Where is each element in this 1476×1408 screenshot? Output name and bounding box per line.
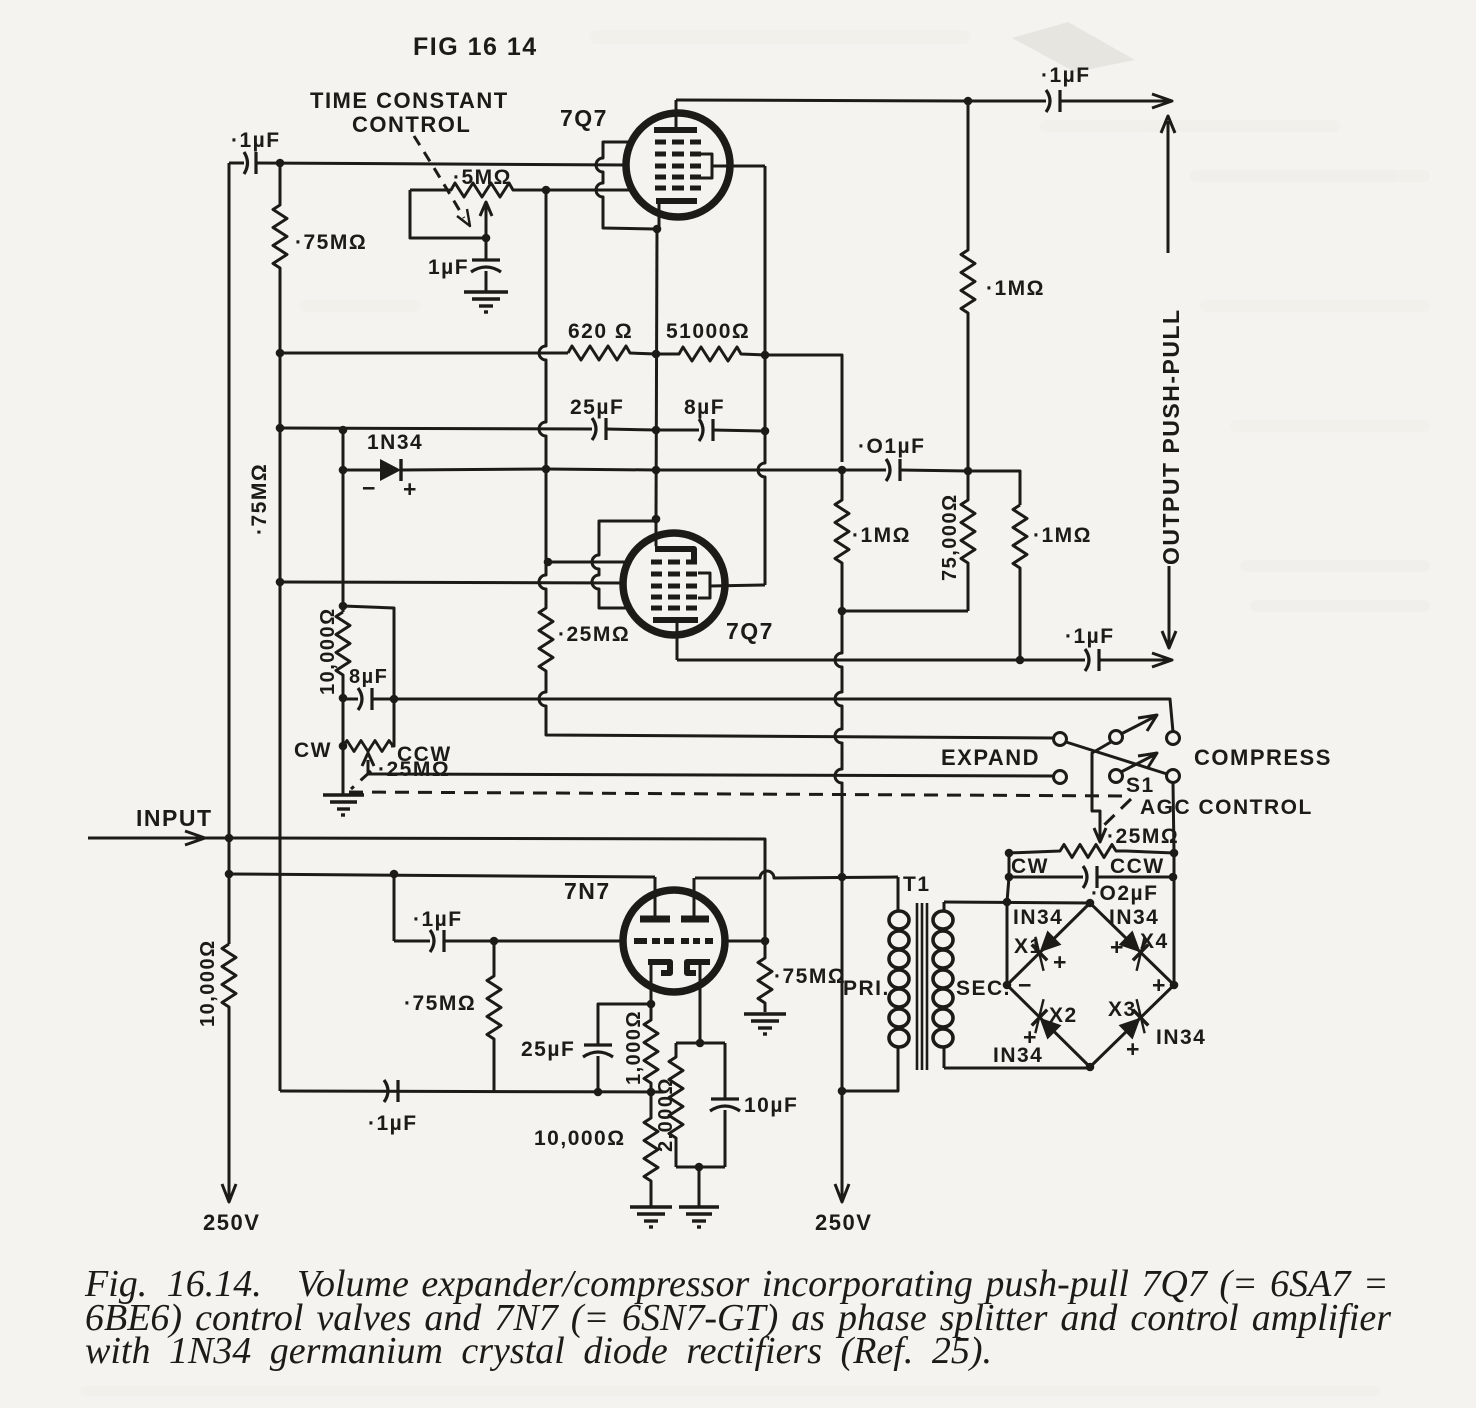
V3 cathode1 lead <box>650 964 653 1004</box>
V2 anode bar with hook <box>655 549 694 560</box>
resistor .1M (x968 top) <box>961 101 975 471</box>
resistor 10,000 ohm vertical (bottom) <box>644 1092 658 1206</box>
resistor 10,000 ohm (input rail to 250V) <box>222 944 236 1027</box>
node junction dot (842,470) <box>838 466 847 475</box>
transformer T1 primary winding <box>889 911 909 1047</box>
V1 grid dashes <box>655 142 701 188</box>
V1 cathode bar <box>656 198 697 204</box>
pot1 wiper arrow up <box>362 753 374 774</box>
svg-text:10,000Ω: 10,000Ω <box>197 939 219 1027</box>
svg-text:CONTROL: CONTROL <box>352 112 471 137</box>
node junction dot (842,611) <box>838 607 847 616</box>
node junction dot (765,941) <box>761 937 770 946</box>
vertical x765 bracket V1 to bracket V2 with hop at 470 <box>758 166 765 585</box>
switch S1 contact bottom-mid <box>1110 770 1123 783</box>
capacitor 25uF (cathode bypass) <box>583 1045 613 1092</box>
resistor 75M (7N7 grid2 leak) <box>758 941 772 1012</box>
transformer T1 secondary winding <box>933 911 953 1047</box>
node junction dot (229,838) <box>225 834 234 843</box>
V3 anode bars <box>640 916 709 923</box>
svg-text:IN34: IN34 <box>1109 906 1159 929</box>
rail x842 transformer tee down to 250V arrow <box>835 877 849 1202</box>
svg-text:−: − <box>362 475 377 501</box>
diode X4 1N34 <box>1114 928 1157 971</box>
node junction dot (1173,877) <box>1169 873 1178 882</box>
svg-text:1,000Ω: 1,000Ω <box>623 1010 645 1085</box>
switch S1 contact top-right <box>1167 732 1180 745</box>
svg-text:with 1N34 germanium crystal di: with 1N34 germanium crystal diode rectif… <box>85 1330 992 1372</box>
node bridge bottom dot <box>1086 1063 1095 1072</box>
wire y774 wiper to switch <box>368 774 1053 776</box>
capacitor 8uF (row y429) <box>656 419 765 441</box>
svg-text:250V: 250V <box>203 1210 260 1235</box>
wire row y699: 8uF node to switch corner <box>394 699 1173 732</box>
node junction dot (229,874) <box>225 870 234 879</box>
V1 left loop (top grid tie) with hops <box>596 142 655 229</box>
switch S1 contact top-mid <box>1110 731 1123 744</box>
wire cathode1 to 25uF top <box>598 1004 651 1044</box>
resistor .75M (7N7 grid1 leak) <box>487 941 501 1091</box>
node junction dot (280,582) <box>276 578 285 587</box>
svg-text:7Q7: 7Q7 <box>560 105 608 131</box>
svg-text:X1: X1 <box>1014 935 1043 958</box>
wire secondary bottom to bridge bottom <box>944 1067 1090 1070</box>
wire pot return box <box>410 190 486 238</box>
wire bridge minus leg <box>1006 902 1009 985</box>
node junction dot (699,1167) <box>695 1163 704 1172</box>
wire row y353 left segment <box>280 352 568 355</box>
svg-text:TIME CONSTANT: TIME CONSTANT <box>310 88 509 113</box>
wire pot2 left down <box>1008 853 1011 877</box>
svg-text:10,000Ω: 10,000Ω <box>534 1127 626 1150</box>
node junction dot (394,699) <box>390 695 399 704</box>
ground under 1uF <box>464 292 508 312</box>
resistor 10,000 ohm vertical (avc filter) <box>336 612 350 698</box>
svg-text:AGC CONTROL: AGC CONTROL <box>1140 796 1313 819</box>
wire B y874 to 7N7 anode1 <box>229 874 655 877</box>
capacitor .1uF (output top) <box>968 90 1168 112</box>
wire rail x280 below resistor <box>279 353 282 1091</box>
node junction dot (1009,877) <box>1005 873 1014 882</box>
V2 cathode lead to output row <box>676 622 679 660</box>
node junction dot (968,101) <box>964 97 973 106</box>
capacitor .1uF (output 2) <box>1020 649 1168 671</box>
wire anode top to output row y100 <box>676 100 968 101</box>
node junction dot (486,238) <box>482 234 491 243</box>
wire row y429 left segment <box>280 428 592 429</box>
node junction dot (1020,660) <box>1016 656 1025 665</box>
svg-text:IN34: IN34 <box>993 1044 1043 1067</box>
svg-text:+: + <box>403 476 418 502</box>
ground (10,000) <box>630 1207 672 1227</box>
wire output row y660 <box>677 659 1022 662</box>
node bridge left dot <box>1003 981 1012 990</box>
svg-text:·75MΩ: ·75MΩ <box>774 965 846 988</box>
svg-text:8µF: 8µF <box>349 666 388 688</box>
node junction dot (343,470) <box>339 466 348 475</box>
node junction dot (546,190) <box>542 186 551 195</box>
node bridge right dot <box>1170 981 1179 990</box>
tube V1 7Q7 envelope <box>626 113 730 217</box>
switch S1 contact bottom-right <box>1167 770 1180 783</box>
node junction dot (765,355) <box>761 351 770 360</box>
node junction dot (343,698) <box>339 694 348 703</box>
svg-text:51000Ω: 51000Ω <box>666 320 750 343</box>
bridge diamond edges <box>1007 903 1174 1067</box>
resistor .75M (top left) vertical <box>273 163 287 353</box>
switch wiper arrow top <box>1121 715 1157 734</box>
capacitor C-in .1uF (top left) <box>229 152 256 174</box>
vertical x546 from 5M down with hops <box>539 190 546 469</box>
wire A y838 input to 7N7 grid2 corner <box>229 838 765 941</box>
rail x842 down with hops <box>835 470 849 611</box>
capacitor .1uF (feedback, bottom) <box>384 1080 398 1102</box>
wire y582 rail to tube V2 lower grid <box>280 582 624 583</box>
V2 cathode bar <box>653 617 698 623</box>
wire bias row y1091 <box>280 1091 663 1092</box>
wire to ground (2,000) <box>698 1167 701 1206</box>
wire secondary top to bridge top <box>944 902 1090 903</box>
node junction dot (656,470) <box>652 466 661 475</box>
svg-text:·1µF: ·1µF <box>413 908 463 931</box>
diode 1N34 (AVC) <box>380 459 401 481</box>
svg-text:·1MΩ: ·1MΩ <box>1033 524 1092 547</box>
V3 cathode bars <box>648 962 710 973</box>
svg-text:7Q7: 7Q7 <box>726 618 774 644</box>
svg-text:EXPAND: EXPAND <box>941 745 1040 770</box>
wire x394 down to coupling cap <box>393 874 396 941</box>
svg-text:X4: X4 <box>1140 930 1169 953</box>
faint page bleed-through smudges <box>1012 22 1135 72</box>
node junction dot (765,431) <box>761 427 770 436</box>
capacitor .1uF (7N7 grid1 coupling) <box>394 930 623 952</box>
node junction dot (280,428) <box>276 424 285 433</box>
transformer T1 core <box>917 903 927 1070</box>
switch wiper arrow bottom <box>1121 753 1157 772</box>
svg-text:1N34: 1N34 <box>367 431 423 454</box>
transformer T1 secondary stubs <box>943 902 946 910</box>
node junction dot (343,606) <box>339 602 348 611</box>
node junction dot (701,1043) <box>696 1039 705 1048</box>
V3 grid dashed row <box>634 938 713 944</box>
svg-text:25µF: 25µF <box>570 396 624 419</box>
2,000/10uF box bottom <box>676 1166 725 1169</box>
node junction dot (842,877) <box>838 873 847 882</box>
capacitor 1uF (time constant) <box>471 238 501 291</box>
node junction dot (656,354) <box>652 350 661 359</box>
node junction dot (548,562) <box>544 558 553 567</box>
V1 right grid bracket <box>701 154 712 178</box>
resistor 620 ohm horizontal <box>568 346 656 360</box>
V3 cathode2 lead <box>699 964 702 1043</box>
svg-text:IN34: IN34 <box>1013 906 1063 929</box>
svg-text:10µF: 10µF <box>744 1094 798 1117</box>
wire avc rail x343 top <box>342 428 345 470</box>
node junction dot (656,430) <box>652 426 661 435</box>
node junction dot (546,469) <box>542 465 551 474</box>
svg-text:+: + <box>1053 949 1068 975</box>
svg-text:620 Ω: 620 Ω <box>568 320 633 343</box>
V2 left loop (top tie) with hops <box>592 521 656 608</box>
V1 cathode lead <box>658 203 661 229</box>
dashed AGC gang line <box>349 771 1131 831</box>
wire V2 bracket to x765 <box>710 585 765 586</box>
wire avc x343 crossing y582 <box>342 470 345 612</box>
node bridge top dot <box>1086 899 1095 908</box>
node junction dot (842,1091) <box>838 1087 847 1096</box>
svg-text:PRI.: PRI. <box>843 977 890 1000</box>
V2 grid dashes <box>651 562 697 608</box>
svg-text:−: − <box>1018 972 1033 998</box>
svg-text:X3: X3 <box>1108 998 1137 1021</box>
svg-text:S1: S1 <box>1126 774 1155 797</box>
svg-text:INPUT: INPUT <box>136 805 213 831</box>
node junction dot (1174,853) <box>1170 849 1179 858</box>
svg-text:OUTPUT PUSH-PULL: OUTPUT PUSH-PULL <box>1158 308 1184 565</box>
svg-text:+: + <box>1110 934 1125 960</box>
node junction dot (651,1004) <box>647 1000 656 1009</box>
potentiometer .25M (expansion) horizontal <box>343 741 393 752</box>
capacitor 10uF <box>710 1043 740 1167</box>
wire avc x343 down to pot <box>342 698 345 746</box>
node junction dot (343,746) <box>339 742 348 751</box>
wire pot2 right down to bridge right node <box>1173 853 1176 985</box>
svg-text:·75MΩ: ·75MΩ <box>248 463 271 535</box>
svg-text:25µF: 25µF <box>521 1038 575 1061</box>
wire top-left grid row y163 to tube V1 <box>256 163 627 165</box>
wire rail x229 below input <box>228 838 231 944</box>
wire row y470 left lead <box>343 469 380 472</box>
vertical x546 from row470 to grid stub <box>545 469 548 562</box>
wire grid stub y562 to tube V2 <box>548 561 629 564</box>
svg-text:·75MΩ: ·75MΩ <box>295 231 367 254</box>
transformer T1 primary stubs <box>897 877 900 910</box>
V1 anode bar and lead <box>654 127 697 133</box>
output push-pull vertical arrow top <box>1161 116 1175 253</box>
svg-text:1µF: 1µF <box>428 256 469 279</box>
resistor 51000 ohm horizontal <box>656 347 765 361</box>
svg-text:+: + <box>1126 1036 1141 1062</box>
svg-text:·5MΩ: ·5MΩ <box>453 166 512 189</box>
svg-text:SEC.: SEC. <box>956 977 1011 1000</box>
svg-text:CCW: CCW <box>1110 855 1165 878</box>
wire left rail x229 down <box>228 163 231 838</box>
capacitor 25uF (row y429) <box>592 418 656 440</box>
wire switch mid-top to AGC pot wiper <box>1092 742 1111 824</box>
switch S1 contact top-left <box>1054 733 1067 746</box>
diode X3 1N34 <box>1114 999 1157 1042</box>
svg-text:T1: T1 <box>903 873 931 896</box>
node A junction dot (280,163) <box>276 159 285 168</box>
resistor .1M right vertical <box>1013 505 1027 660</box>
svg-text:·25MΩ: ·25MΩ <box>558 623 630 646</box>
wire row y470 to x656 <box>546 469 656 470</box>
svg-text:250V: 250V <box>815 1210 872 1235</box>
node junction dot (968,471) <box>964 467 973 476</box>
V2 right grid bracket <box>698 573 710 598</box>
svg-text:·1µF: ·1µF <box>1065 625 1115 648</box>
svg-text:·1MΩ: ·1MΩ <box>852 524 911 547</box>
resistor 75000 ohm vertical <box>961 471 975 611</box>
capacitor .02uF row <box>1009 866 1173 888</box>
2,000/10uF box top <box>676 1042 725 1045</box>
wire row y470 middle <box>401 469 546 470</box>
wire V1 bracket to x765 <box>712 165 765 168</box>
node junction dot (656,519) <box>652 515 661 524</box>
AGC pot wiper arrowhead down <box>1094 824 1106 842</box>
svg-text:7N7: 7N7 <box>564 878 611 904</box>
svg-text:8µF: 8µF <box>684 396 725 419</box>
svg-text:75,000Ω: 75,000Ω <box>939 493 961 581</box>
wire cap02 left down to secondary wire <box>1007 877 1009 902</box>
node junction dot (651,1092) <box>647 1088 656 1097</box>
svg-text:·1µF: ·1µF <box>368 1112 418 1135</box>
svg-text:FIG 16 14: FIG 16 14 <box>413 33 538 61</box>
wire row y353 right to rail corner <box>765 355 842 462</box>
wire V3 grid2 row to x765 <box>725 940 765 943</box>
svg-text:X2: X2 <box>1049 1004 1078 1027</box>
diode X1 1N34 <box>1023 928 1066 971</box>
wire 5M right to tube V1 <box>546 189 632 192</box>
ground (2,000) <box>679 1207 719 1227</box>
svg-text:COMPRESS: COMPRESS <box>1194 745 1332 770</box>
node junction dot (280,353) <box>276 349 285 358</box>
node junction dot (598,1092) <box>594 1088 603 1097</box>
pot wiper arrow up <box>480 202 492 238</box>
dashed leader arrow from TIME CONSTANT CONTROL to wiper <box>414 136 464 218</box>
vertical x546 hop y582 then resistor 25M <box>539 562 1053 738</box>
svg-text:CW: CW <box>294 739 332 762</box>
wire V3 anode2 to rail x842 tee <box>695 871 898 878</box>
node junction dot (394,874) <box>390 870 399 879</box>
svg-text:IN34: IN34 <box>1156 1026 1206 1049</box>
V3 anode leads <box>654 877 657 916</box>
svg-text:·1MΩ: ·1MΩ <box>986 277 1045 300</box>
wire rail x229 to 250V arrow <box>222 1027 236 1202</box>
node junction dot (1009,853) <box>1005 849 1014 858</box>
rail x842 hops to transformer tee <box>835 611 842 877</box>
svg-text:CW: CW <box>1011 855 1049 878</box>
svg-text:·1µF: ·1µF <box>1041 64 1091 87</box>
output push-pull vertical arrow bottom <box>1162 566 1176 648</box>
INPUT arrow <box>88 831 229 845</box>
capacitor .01uF (row y470) <box>842 459 968 481</box>
wire pot right end up to 8uF node <box>391 699 394 746</box>
svg-text:·75MΩ: ·75MΩ <box>404 992 476 1015</box>
wire row y471 to 1M right corner <box>968 471 1020 505</box>
svg-text:·O1µF: ·O1µF <box>858 435 925 458</box>
resistor 1,000 ohm vertical <box>644 1004 658 1092</box>
wire row y611 <box>842 610 968 613</box>
svg-text:·25MΩ: ·25MΩ <box>378 758 450 781</box>
wire row y470 to rail 842 <box>656 469 842 472</box>
resistor 2,000 ohm vertical <box>669 1043 683 1167</box>
potentiometer .25M AGC horizontal <box>1009 845 1174 858</box>
arrowhead output top <box>1152 94 1172 108</box>
node junction dot (657,229) <box>653 225 662 234</box>
arrowhead output 2 <box>1152 653 1172 667</box>
svg-text:2,000Ω: 2,000Ω <box>655 1077 677 1152</box>
ground (75M) <box>744 1014 786 1034</box>
svg-text:10,000Ω: 10,000Ω <box>317 607 339 695</box>
node junction dot (343,430) <box>339 426 348 435</box>
tube V2 7Q7 envelope <box>623 533 725 635</box>
wire switch bottom-right down to pot2 <box>1173 783 1174 853</box>
svg-text:·1µF: ·1µF <box>231 129 281 152</box>
svg-text:·O2µF: ·O2µF <box>1091 882 1158 905</box>
node junction dot (494,941) <box>490 937 499 946</box>
diode X2 1N34 <box>1023 999 1066 1042</box>
wire box 10,000 to 8uF right leg <box>343 606 394 699</box>
svg-text:+: + <box>1152 972 1167 998</box>
svg-text:·25MΩ: ·25MΩ <box>1107 825 1179 848</box>
switch gang diagonal <box>1066 742 1167 774</box>
vertical x656 cathode V1 to anode V2 <box>656 229 657 519</box>
resistor R-5M potentiometer horizontal <box>410 183 546 197</box>
tube V3 7N7 envelope <box>623 890 725 992</box>
switch S1 contact bottom-left <box>1054 771 1067 784</box>
ground (expansion pot) <box>323 746 364 815</box>
node junction dot (1007,902) <box>1003 898 1012 907</box>
capacitor 8uF (avc) <box>343 688 394 710</box>
